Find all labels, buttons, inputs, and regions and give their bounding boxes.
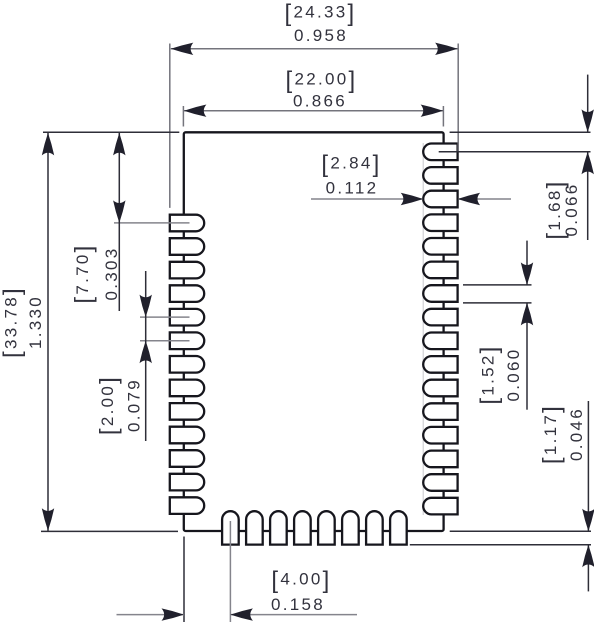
dimension line [24.33] overall width	[171, 48, 458, 50]
svg-text:0.158: 0.158	[271, 595, 325, 614]
left pad 3	[170, 262, 204, 279]
bottom pad 4	[294, 511, 311, 544]
right pad 2	[423, 167, 457, 184]
leader line left pad 5 centre	[140, 316, 190, 318]
svg-text:1.330: 1.330	[26, 295, 45, 349]
right pad 6	[423, 262, 457, 279]
left pad 10	[170, 427, 204, 444]
extension line bottom body edge	[41, 530, 178, 532]
right pad 1	[423, 144, 457, 161]
dimension line [7.70]	[118, 132, 120, 311]
right pad 13	[423, 427, 457, 444]
leader line left pad 6 centre	[140, 340, 190, 342]
dimension line [1.17]	[587, 401, 589, 531]
left pad 8	[170, 380, 204, 397]
extension tick left body edge	[182, 106, 184, 127]
dimension tail right [4.00]	[230, 614, 357, 616]
right pad 4	[423, 214, 457, 231]
dimension line [33.78] overall height	[47, 132, 49, 531]
left pad 11	[170, 450, 204, 467]
right pad 8	[423, 309, 457, 326]
leader line first left pad centre	[114, 222, 190, 224]
left pad 5	[170, 309, 204, 326]
svg-text:0.958: 0.958	[294, 26, 348, 45]
right pad 3	[423, 191, 457, 208]
left pad 7	[170, 356, 204, 373]
left pad 1	[170, 215, 204, 232]
extension line right pad 1 centre	[439, 151, 591, 153]
svg-text:0.060: 0.060	[504, 347, 523, 401]
extension line right pad 7 bottom	[463, 302, 532, 304]
left pad 9	[170, 403, 204, 420]
right pad 14	[423, 451, 457, 468]
extension line body left edge down	[183, 537, 185, 622]
svg-text:0.303: 0.303	[102, 246, 121, 300]
dimension line [2.00] pad pitch	[145, 271, 147, 441]
left pad 12	[170, 474, 204, 491]
arrowheads [4.00]	[162, 608, 185, 620]
dimension tail left [4.00]	[117, 614, 185, 616]
dimension tail left [2.84]	[311, 198, 423, 200]
extension line left overall extent	[169, 44, 171, 208]
svg-text:0.046: 0.046	[567, 407, 586, 461]
dimension line [1.68]	[587, 75, 589, 132]
bottom pad 8	[390, 511, 407, 544]
extension line body top edge right	[450, 131, 591, 133]
extension line right pad 7 top	[463, 284, 532, 286]
svg-text:0.079: 0.079	[125, 378, 144, 432]
right pad 12	[423, 403, 457, 420]
bottom pad 1	[222, 511, 239, 544]
bottom pad 2	[246, 511, 263, 544]
extension line bottom pads lower edge	[410, 544, 591, 546]
svg-text:0.112: 0.112	[326, 179, 379, 198]
dimension line [1.52]	[526, 241, 528, 285]
extension line body bottom edge right	[450, 530, 591, 532]
left pad 13	[170, 497, 204, 514]
bottom pad 5	[318, 511, 335, 544]
dimension line [22.00] body width	[184, 110, 443, 112]
module body outline	[184, 132, 444, 531]
left pad 2	[170, 238, 204, 255]
bottom pad 3	[270, 511, 287, 544]
right pad 16	[423, 498, 457, 515]
right pad 15	[423, 474, 457, 491]
svg-text:0.066: 0.066	[562, 182, 581, 236]
bottom pad 7	[366, 511, 383, 544]
left pad 4	[170, 285, 204, 302]
extension line right overall extent	[457, 44, 459, 152]
right pad 10	[423, 356, 457, 373]
left pad 6	[170, 332, 204, 349]
leader line bottom pad 1 centre	[229, 521, 231, 622]
dimension tail right [2.84]	[458, 198, 511, 200]
right pad 5	[423, 238, 457, 255]
extension line top body edge	[43, 131, 179, 133]
svg-text:0.866: 0.866	[293, 92, 347, 111]
bottom pad 6	[342, 511, 359, 544]
extension tick right body edge	[442, 106, 444, 127]
right pad 9	[423, 333, 457, 350]
right pad 11	[423, 380, 457, 397]
right pad 7	[423, 285, 457, 302]
construction line (right pad tips tangent)	[422, 143, 424, 515]
arrowheads [2.84] at pad edges	[401, 193, 424, 205]
